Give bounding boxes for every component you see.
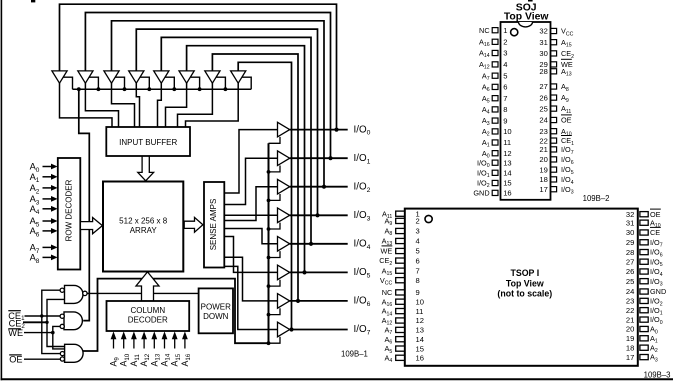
svg-text:18: 18 (539, 175, 547, 184)
svg-text:27: 27 (539, 82, 547, 91)
svg-text:15: 15 (503, 179, 511, 188)
svg-text:DOWN: DOWN (203, 312, 229, 321)
svg-text:11: 11 (503, 138, 511, 147)
svg-text:5: 5 (416, 247, 420, 256)
svg-text:NC: NC (382, 288, 393, 297)
svg-text:18: 18 (626, 343, 634, 352)
svg-text:23: 23 (626, 297, 634, 306)
svg-text:OE: OE (9, 355, 22, 365)
svg-text:7: 7 (503, 94, 507, 103)
svg-text:WE: WE (381, 247, 393, 256)
svg-text:13: 13 (503, 158, 511, 167)
svg-text:25: 25 (539, 104, 547, 113)
svg-text:(not to scale): (not to scale) (497, 288, 552, 298)
svg-text:GND: GND (650, 287, 666, 296)
svg-text:14: 14 (416, 335, 424, 344)
svg-text:31: 31 (626, 218, 634, 227)
svg-text:WE: WE (8, 328, 23, 338)
svg-text:SENSE AMPS: SENSE AMPS (209, 199, 218, 251)
svg-text:19: 19 (539, 165, 547, 174)
svg-text:20: 20 (539, 155, 547, 164)
svg-text:NC: NC (479, 26, 490, 35)
svg-text:14: 14 (503, 169, 511, 178)
svg-text:9: 9 (503, 116, 507, 125)
svg-text:7: 7 (416, 266, 420, 275)
svg-text:109B–3: 109B–3 (644, 370, 671, 379)
svg-text:4: 4 (416, 237, 420, 246)
svg-text:Top View: Top View (504, 11, 550, 22)
svg-text:21: 21 (626, 315, 634, 324)
svg-text:3: 3 (503, 49, 507, 58)
svg-text:3: 3 (416, 227, 420, 236)
svg-text:30: 30 (626, 228, 634, 237)
svg-text:ARRAY: ARRAY (130, 226, 158, 235)
svg-text:2: 2 (503, 38, 507, 47)
svg-text:15: 15 (416, 344, 424, 353)
svg-text:109B–1: 109B–1 (341, 350, 368, 359)
svg-text:17: 17 (539, 185, 547, 194)
svg-text:31: 31 (539, 38, 547, 47)
svg-text:8: 8 (416, 276, 420, 285)
svg-text:27: 27 (626, 257, 634, 266)
svg-text:12: 12 (503, 149, 511, 158)
svg-text:1: 1 (503, 26, 507, 35)
svg-text:16: 16 (416, 354, 424, 363)
svg-text:26: 26 (539, 93, 547, 102)
svg-text:2: 2 (416, 217, 420, 226)
svg-text:GND: GND (473, 189, 489, 198)
svg-text:POWER: POWER (201, 302, 231, 311)
svg-text:ROW DECODER: ROW DECODER (65, 179, 74, 241)
svg-text:22: 22 (539, 136, 547, 145)
svg-text:109B–2: 109B–2 (583, 194, 610, 203)
svg-text:10: 10 (416, 297, 424, 306)
svg-text:22: 22 (626, 306, 634, 315)
svg-text:5: 5 (503, 71, 507, 80)
svg-text:TSOP I: TSOP I (510, 268, 539, 278)
svg-text:20: 20 (626, 325, 634, 334)
svg-text:OE: OE (561, 116, 572, 125)
svg-text:28: 28 (626, 248, 634, 257)
svg-text:Top View: Top View (506, 278, 544, 288)
svg-text:10: 10 (503, 127, 511, 136)
svg-text:512 x 256 x 8: 512 x 256 x 8 (119, 216, 168, 225)
svg-text:26: 26 (626, 267, 634, 276)
svg-text:25: 25 (626, 277, 634, 286)
svg-text:29: 29 (626, 238, 634, 247)
svg-text:30: 30 (539, 49, 547, 58)
svg-text:CE: CE (650, 228, 660, 237)
svg-text:19: 19 (626, 334, 634, 343)
svg-text:17: 17 (626, 353, 634, 362)
svg-text:4: 4 (503, 60, 507, 69)
svg-text:24: 24 (539, 116, 547, 125)
svg-text:COLUMN: COLUMN (130, 306, 165, 315)
svg-text:32: 32 (539, 27, 547, 36)
svg-text:6: 6 (503, 83, 507, 92)
svg-text:6: 6 (416, 256, 420, 265)
svg-text:DECODER: DECODER (128, 316, 168, 325)
svg-text:23: 23 (539, 127, 547, 136)
svg-text:INPUT BUFFER: INPUT BUFFER (119, 138, 177, 147)
svg-text:8: 8 (503, 105, 507, 114)
svg-text:12: 12 (416, 316, 424, 325)
svg-text:9: 9 (416, 288, 420, 297)
svg-text:13: 13 (416, 326, 424, 335)
svg-text:16: 16 (503, 189, 511, 198)
svg-text:28: 28 (539, 67, 547, 76)
svg-text:21: 21 (539, 145, 547, 154)
svg-text:11: 11 (416, 307, 424, 316)
svg-text:24: 24 (626, 287, 634, 296)
